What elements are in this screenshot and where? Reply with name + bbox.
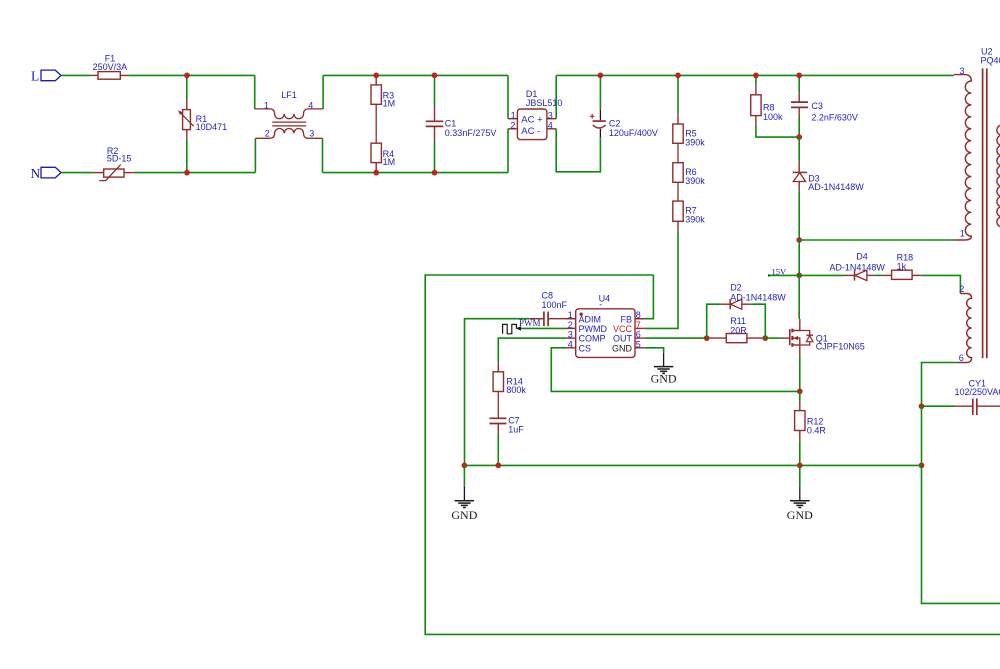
junction snubber node: [796, 134, 802, 140]
svg-text:PWMD: PWMD: [579, 324, 608, 334]
svg-text:390k: 390k: [685, 138, 705, 148]
svg-text:4: 4: [548, 120, 553, 130]
wire F1 to LF1 pin1 branch: [128, 74, 255, 76]
thermistor R2: [94, 172, 104, 174]
wire D4 to R18: [874, 274, 882, 276]
svg-text:390k: 390k: [685, 215, 705, 225]
resistor R7: [673, 201, 683, 221]
svg-text:C2: C2: [609, 119, 621, 129]
svg-text:CJPF10N65: CJPF10N65: [816, 342, 865, 352]
junction bottom rail / C1: [432, 170, 438, 176]
wire CY1 node to CY1: [922, 405, 955, 407]
wire LF1 pin3 to bridge pin2: [323, 172, 509, 174]
capacitor C8: [548, 318, 576, 320]
svg-text:L: L: [31, 69, 39, 84]
svg-text:GND: GND: [612, 343, 633, 353]
wire R14 to C7: [497, 392, 499, 419]
svg-text:AC +: AC +: [521, 114, 543, 125]
wire C3 to snubber node: [798, 117, 800, 137]
capacitor C1: [434, 106, 436, 121]
junction GND rail / C8 drop: [462, 463, 468, 469]
svg-text:C8: C8: [542, 291, 554, 301]
svg-text:3: 3: [309, 129, 314, 139]
svg-text:1M: 1M: [383, 157, 396, 167]
wire D1 pin4 down to DC-: [556, 129, 600, 172]
wire LF1 pin4 to bridge pin1: [323, 74, 508, 76]
svg-text:CS: CS: [579, 343, 592, 353]
svg-text:3: 3: [548, 110, 553, 120]
svg-text:0.33nF/275V: 0.33nF/275V: [445, 128, 497, 138]
svg-text:1: 1: [264, 101, 269, 111]
svg-text:ADIM: ADIM: [579, 314, 602, 324]
junction gate network right: [762, 335, 768, 341]
svg-text:800k: 800k: [506, 385, 526, 395]
transformer U2 secondary winding: [997, 125, 1000, 227]
svg-text:4: 4: [568, 339, 573, 349]
svg-text:N: N: [31, 166, 41, 181]
transformer U2 core: [982, 68, 984, 358]
svg-text:2.2nF/630V: 2.2nF/630V: [811, 113, 858, 123]
wire top rail to R1: [186, 75, 188, 100]
svg-text:AC -: AC -: [521, 126, 540, 137]
svg-text:3: 3: [568, 330, 573, 340]
diode D3: [798, 162, 800, 173]
svg-text:2: 2: [959, 284, 964, 294]
junction drain node / 15V rail: [796, 273, 802, 279]
junction GND rail right end: [919, 463, 925, 469]
svg-text:2: 2: [568, 320, 573, 330]
varistor R1: [186, 100, 188, 110]
svg-text:FB: FB: [620, 314, 632, 324]
wire R1 to bottom rail: [186, 139, 188, 172]
wire GND rail to left ground flag: [463, 465, 465, 486]
junction top rail / R8: [753, 73, 759, 79]
junction N rail / R1: [184, 170, 190, 176]
svg-text:C1: C1: [445, 119, 457, 129]
resistor R18: [882, 274, 892, 276]
wire D2 bypass left: [707, 304, 721, 338]
resistor R5: [677, 114, 679, 124]
wire Q1 source to source node: [799, 356, 801, 391]
svg-text:AD-1N4148W: AD-1N4148W: [730, 293, 786, 303]
resistor R14: [497, 362, 499, 372]
svg-text:390k: 390k: [685, 176, 705, 186]
capacitor C3: [798, 92, 800, 102]
wire GND rail to right ground flag: [799, 465, 801, 486]
junction bottom rail / R4: [373, 170, 379, 176]
wire R2 to LF1 pin2 branch: [134, 172, 256, 174]
svg-text:1k: 1k: [897, 262, 907, 272]
svg-text:AD-1N4148W: AD-1N4148W: [808, 182, 864, 192]
svg-text:102/250VAC: 102/250VAC: [955, 387, 1000, 397]
diode D2: [721, 303, 730, 305]
wire LF1 pin 3 down to bottom rail: [322, 138, 324, 172]
wire PWM to PWMD pin: [518, 327, 566, 329]
svg-text:D2: D2: [730, 283, 742, 293]
port N: [41, 167, 61, 178]
svg-text:C3: C3: [811, 101, 823, 111]
wire gate network to Q1 gate: [765, 337, 780, 339]
svg-text:2: 2: [510, 120, 515, 130]
svg-text:R8: R8: [763, 103, 775, 113]
wire R18 to transformer pin 2: [922, 275, 961, 293]
svg-text:OUT: OUT: [613, 334, 633, 344]
wire top rail to C3: [798, 75, 800, 92]
svg-text:250V/3A: 250V/3A: [93, 62, 128, 72]
wire drain node to Q1 drain: [798, 275, 800, 319]
junction gate network left: [704, 335, 710, 341]
wire C1 to bottom rail: [434, 142, 436, 173]
svg-text:GND: GND: [787, 508, 813, 522]
wire feedback loop: [425, 275, 1000, 634]
diode D4: [845, 274, 855, 276]
svg-text:2: 2: [265, 129, 270, 139]
svg-text:GND: GND: [651, 372, 677, 386]
svg-text:PQ4040: PQ4040: [981, 55, 1000, 65]
wire N port to R2: [61, 172, 94, 174]
wire R3 to R4: [375, 104, 377, 143]
svg-text:5D-15: 5D-15: [107, 154, 132, 164]
wire LF1 pin 4 up to top rail: [322, 75, 324, 109]
wire 15V rail to D4: [799, 274, 845, 276]
wire D1 pin3 up to DC+ rail: [555, 75, 557, 118]
svg-text:0.4R: 0.4R: [807, 426, 827, 436]
svg-text:6: 6: [636, 330, 641, 340]
wire OUT to gate network: [645, 337, 707, 339]
transistor Q1: [781, 337, 790, 339]
junction drain node / transformer pin 1: [796, 237, 802, 243]
wire top rail to C1: [434, 75, 436, 106]
wire DC+ rail: [556, 74, 954, 76]
junction top rail / C1: [432, 73, 438, 79]
svg-text:5: 5: [636, 339, 641, 349]
svg-text:10D471: 10D471: [196, 122, 228, 132]
svg-text:1: 1: [511, 110, 516, 120]
wire R12 to GND rail: [799, 440, 801, 465]
wire R6 to R7: [677, 182, 679, 201]
svg-text:120uF/400V: 120uF/400V: [609, 128, 658, 138]
wire CY1 node down to GND rail: [921, 406, 923, 465]
svg-text:4: 4: [308, 101, 313, 111]
ground flag at U4 pin 5: [663, 353, 665, 367]
junction GND rail / C7: [495, 463, 501, 469]
junction GND rail / R12: [797, 463, 803, 469]
wire C8 to GND drop: [465, 319, 530, 466]
ground flag left: [463, 487, 465, 501]
common-mode choke LF1: [255, 109, 323, 119]
junction top rail / R3: [373, 73, 379, 79]
svg-text:LF1: LF1: [281, 90, 297, 100]
capacitor CY1: [955, 405, 973, 407]
junction L rail / R1: [184, 73, 190, 79]
svg-text:VCC: VCC: [613, 324, 633, 334]
svg-text:PWM: PWM: [519, 318, 541, 328]
wire snubber node to D3: [798, 137, 800, 162]
wire GND pin to flag: [645, 348, 664, 353]
wire transformer pin 1 to drain node: [799, 239, 954, 241]
svg-text:1M: 1M: [383, 99, 396, 109]
wire D3 anode to drain node: [798, 191, 800, 240]
svg-text:1uF: 1uF: [508, 425, 524, 435]
resistor R3: [375, 75, 377, 85]
fuse F1: [90, 74, 128, 76]
resistor R12: [799, 401, 801, 411]
wire GND rail: [464, 464, 921, 466]
wire R8 to snubber node: [756, 125, 799, 137]
svg-text:100nF: 100nF: [542, 300, 568, 310]
svg-text:GND: GND: [451, 508, 477, 522]
port L: [41, 70, 61, 81]
svg-text:100k: 100k: [763, 112, 783, 122]
wire top rail to R8: [755, 75, 757, 85]
wire R5 to R6: [677, 143, 679, 162]
op-amp U4 controller: [576, 309, 635, 358]
resistor R8: [755, 85, 757, 95]
transformer U2 primary winding: [954, 75, 971, 240]
wire top rail down to LF1 pin 1: [254, 75, 256, 109]
junction DC+ rail / R5: [675, 73, 681, 79]
wire down to D1 pin 2: [507, 129, 509, 173]
net label PWM: [503, 324, 517, 333]
wire CS to source node: [551, 348, 800, 392]
wire C7 to GND rail: [497, 433, 499, 465]
svg-text:COMP: COMP: [579, 334, 606, 344]
junction source node: [797, 389, 803, 395]
wire bottom rail up to LF1 pin 2: [254, 138, 256, 172]
resistor R11: [707, 337, 727, 339]
wire DC+ rail to C2: [599, 75, 601, 110]
capacitor C7: [490, 417, 507, 419]
wire R7 down to U4 VCC: [645, 231, 678, 328]
wire FB pin to loop: [645, 275, 654, 319]
transformer U2 auxiliary winding: [959, 294, 972, 363]
resistor R4: [371, 143, 381, 162]
junction top rail / C3: [796, 73, 802, 79]
junction CY1 node: [919, 403, 925, 409]
svg-text:20R: 20R: [730, 326, 747, 336]
svg-text:-: -: [599, 300, 602, 310]
bridge rectifier D1: [517, 109, 547, 140]
svg-text:AD-1N4148W: AD-1N4148W: [829, 263, 885, 273]
wire drain node down: [798, 240, 800, 275]
wire GND rail to secondary return: [922, 465, 1000, 603]
wire transformer pin 6 to left: [922, 363, 959, 407]
wire L port to F1: [61, 74, 90, 76]
svg-text:3: 3: [960, 66, 965, 76]
ground flag right: [799, 487, 801, 501]
wire down to D1 pin 1: [507, 75, 509, 118]
svg-text:7: 7: [636, 320, 641, 330]
wire COMP to R14: [498, 338, 566, 362]
wire source node to R12: [799, 391, 801, 401]
wire 15V stub: [769, 274, 799, 276]
wire DC+ rail to R5: [677, 75, 679, 114]
svg-text:6: 6: [959, 353, 964, 363]
resistor R6: [673, 163, 683, 183]
junction DC+ rail / C2: [598, 73, 604, 79]
svg-text:R11: R11: [730, 316, 746, 326]
pin lead FB: [635, 318, 645, 320]
svg-text:1: 1: [960, 229, 965, 239]
capacitor C2: [599, 110, 601, 120]
svg-text:D4: D4: [856, 252, 868, 262]
wire D2 bypass right: [751, 304, 765, 338]
